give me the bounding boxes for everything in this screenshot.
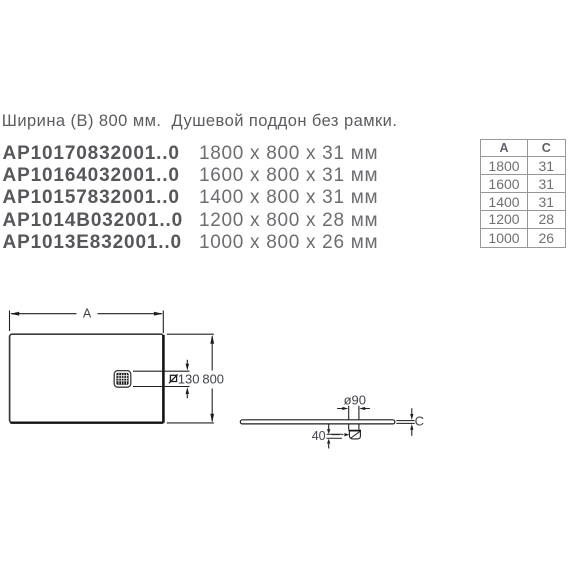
- svg-text:40: 40: [312, 429, 326, 443]
- svg-text:C: C: [415, 414, 424, 429]
- svg-text:130: 130: [178, 372, 200, 387]
- svg-text:ø90: ø90: [344, 393, 366, 408]
- svg-text:800: 800: [202, 372, 224, 387]
- svg-text:A: A: [83, 306, 92, 320]
